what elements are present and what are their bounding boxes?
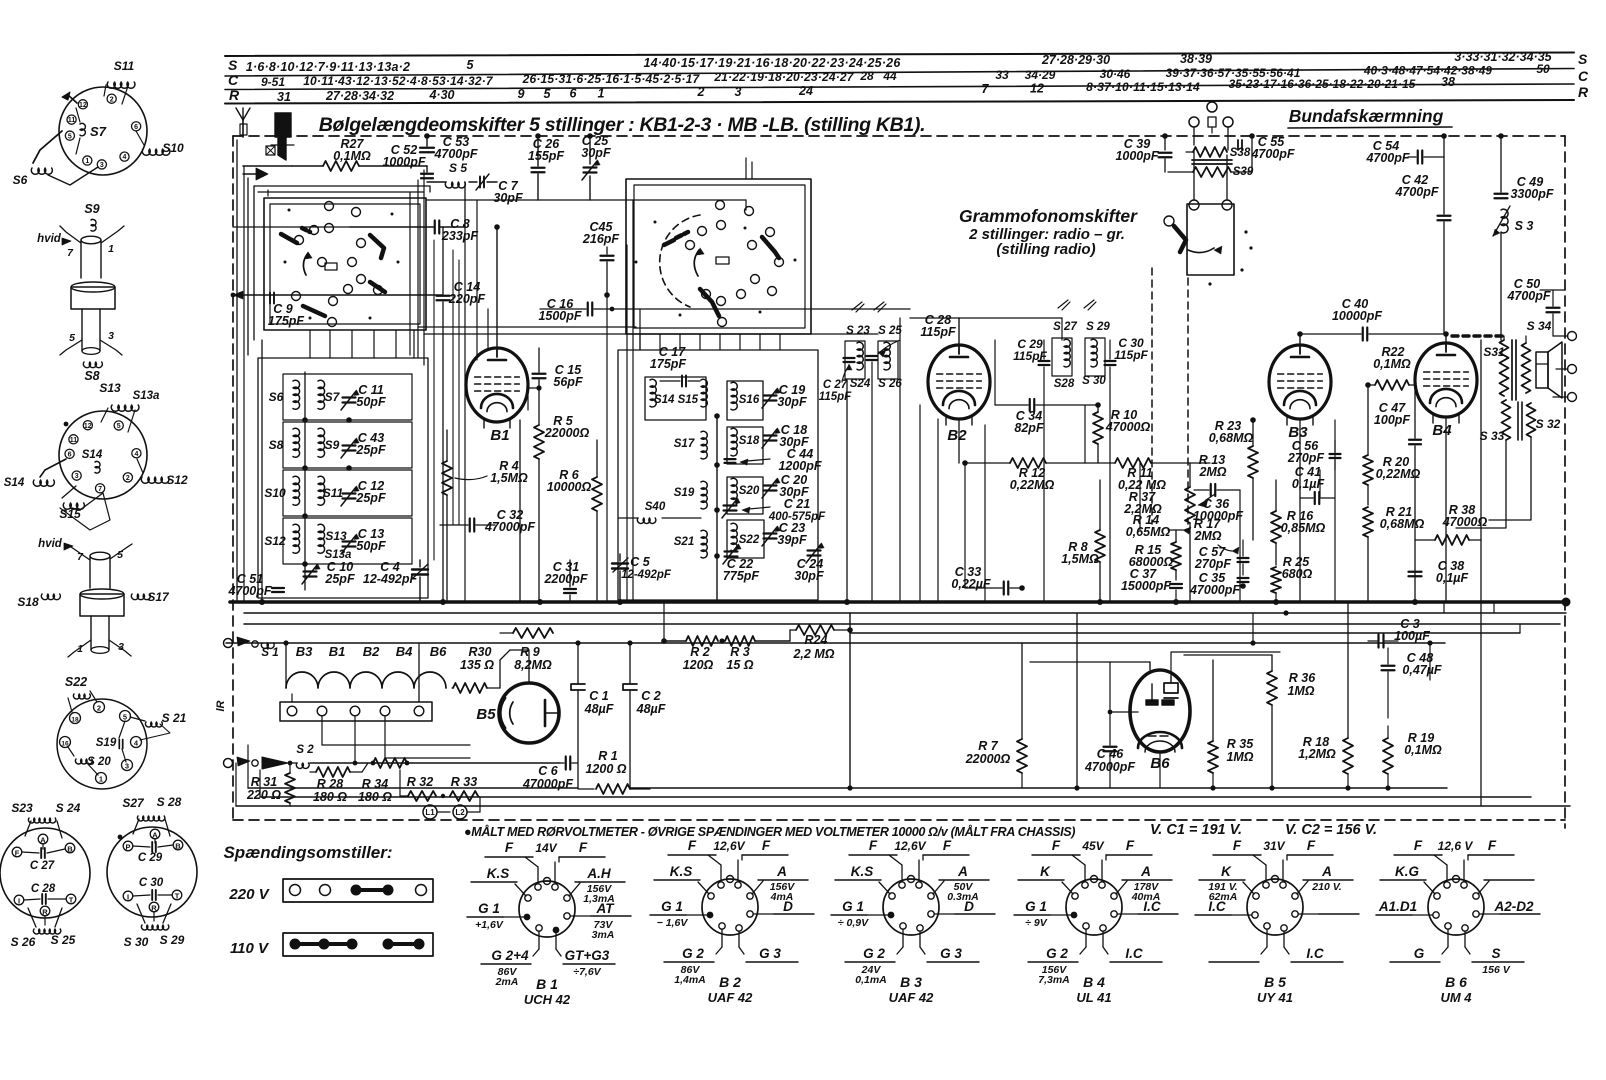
resistor R15: [1129, 530, 1181, 580]
svg-text:I.C: I.C: [1143, 899, 1161, 914]
capacitor C56: [1287, 439, 1341, 470]
resistor R32: [400, 770, 436, 801]
trimmer C11: [341, 383, 386, 410]
coil pair S27 S29: [1052, 321, 1110, 390]
svg-text:S10: S10: [162, 141, 184, 155]
svg-text:175pF: 175pF: [268, 314, 304, 328]
svg-text:G 2: G 2: [863, 946, 885, 961]
svg-text:S38: S38: [1230, 147, 1251, 159]
svg-text:S 24: S 24: [56, 801, 81, 815]
coil box S18: [727, 427, 763, 464]
svg-text:F: F: [1488, 838, 1497, 853]
svg-text:S 32: S 32: [1536, 417, 1561, 431]
svg-text:B3: B3: [296, 644, 313, 659]
svg-text:30pF: 30pF: [794, 569, 824, 583]
svg-text:F: F: [505, 840, 514, 855]
svg-text:C 29: C 29: [138, 852, 163, 864]
svg-text:100pF: 100pF: [1374, 413, 1410, 427]
svg-text:1: 1: [85, 158, 89, 165]
svg-text:S28: S28: [1054, 378, 1075, 390]
wire v antenna drop2: [243, 166, 245, 602]
svg-text:56pF: 56pF: [553, 375, 583, 389]
coil S6 leads on wafer S7: [13, 131, 98, 187]
band switch box 2 outline: [626, 179, 811, 334]
svg-text:2: 2: [110, 96, 114, 103]
svg-text:S 33: S 33: [1480, 429, 1505, 443]
svg-text:S16: S16: [739, 394, 760, 406]
capacitor C15: [527, 348, 583, 425]
svg-text:10·11·43·12·13·52·4·8·53·14·32: 10·11·43·12·13·52·4·8·53·14·32·7: [303, 74, 494, 88]
svg-text:11: 11: [70, 437, 78, 444]
svg-text:1: 1: [77, 643, 83, 655]
wafer S22 coil and labels: [65, 675, 187, 775]
coil block row boxes: [283, 374, 412, 564]
coil S3: [1493, 206, 1533, 340]
svg-text:220 Ω: 220 Ω: [246, 788, 281, 802]
svg-text:AT: AT: [596, 901, 616, 916]
trimmer C7: [476, 174, 523, 205]
svg-text:S: S: [1578, 51, 1588, 67]
transformer S38/S39 core: [1192, 160, 1232, 164]
tube B6 magic eye: [1130, 670, 1190, 772]
svg-text:2MΩ: 2MΩ: [1193, 529, 1221, 543]
svg-text:B 5: B 5: [1264, 974, 1286, 990]
coil S5: [427, 161, 477, 188]
wire right-mid verticals: [1044, 318, 1446, 602]
svg-text:T: T: [69, 896, 74, 905]
svg-text:0,1µF: 0,1µF: [1436, 571, 1469, 585]
svg-text:31: 31: [277, 90, 291, 104]
svg-text:÷ 0,9V: ÷ 0,9V: [838, 917, 869, 929]
wire mid verticals: [607, 295, 995, 602]
coil S8b: [269, 428, 300, 457]
svg-text:C 6: C 6: [538, 764, 559, 778]
svg-text:F: F: [869, 838, 878, 853]
coil box S16: [727, 381, 763, 420]
svg-text:R 3: R 3: [730, 645, 750, 659]
band switch 1 contacts: [292, 202, 383, 301]
svg-text:hvid: hvid: [37, 233, 62, 245]
svg-text:15000pF: 15000pF: [1121, 579, 1171, 593]
resistor R10: [1093, 402, 1150, 463]
svg-text:S6: S6: [13, 173, 28, 187]
svg-text:F: F: [1052, 838, 1061, 853]
svg-text:F: F: [1414, 838, 1423, 853]
svg-text:8,2MΩ: 8,2MΩ: [514, 658, 552, 672]
dashed screen lines middle: [1152, 268, 1188, 524]
tube B1: [466, 348, 528, 444]
svg-text:0,85MΩ: 0,85MΩ: [1281, 521, 1326, 535]
wire bottom h1: [248, 787, 578, 789]
svg-text:S19: S19: [96, 737, 117, 749]
resistor R19b: [1383, 726, 1442, 788]
svg-text:6: 6: [134, 124, 138, 131]
trimmer C20: [762, 473, 809, 499]
resistor R33: [441, 775, 478, 801]
main ground bus: [230, 598, 1571, 607]
svg-text:34·29: 34·29: [1025, 68, 1056, 82]
svg-text:R: R: [229, 87, 240, 103]
svg-text:5: 5: [68, 133, 72, 140]
svg-text:÷ 9V: ÷ 9V: [1025, 917, 1048, 929]
coil S14 left leads: [4, 459, 66, 489]
main title Boelgelaengdeomskifter: [319, 114, 926, 136]
resistor R30: [452, 645, 510, 693]
svg-text:2200pF: 2200pF: [543, 572, 587, 586]
capacitor C47: [1374, 385, 1421, 602]
mains connector block: [266, 113, 294, 160]
svg-text:F: F: [943, 838, 952, 853]
resistor R34: [358, 758, 409, 804]
svg-text:R 28: R 28: [317, 777, 343, 791]
rotary switch S23/S24 capacitor view: [0, 801, 90, 949]
svg-text:S 26: S 26: [878, 378, 902, 390]
svg-text:S8: S8: [269, 438, 284, 452]
svg-text:6: 6: [68, 451, 72, 458]
resistor R18: [1298, 602, 1353, 788]
svg-text:D: D: [964, 899, 974, 914]
svg-text:270pF: 270pF: [1194, 557, 1231, 571]
svg-text:156 V: 156 V: [1482, 964, 1510, 976]
band switch 2 rotor arc: [660, 215, 700, 307]
resistor R25: [1271, 555, 1313, 602]
coil S11 on wafer S7: [104, 59, 135, 104]
svg-text:4700pF: 4700pF: [1394, 185, 1438, 199]
svg-text:S17: S17: [674, 438, 695, 450]
svg-text:S 21: S 21: [162, 711, 187, 725]
svg-text:G 2: G 2: [1046, 946, 1068, 961]
band switch 1 rotation arrow: [303, 252, 312, 275]
svg-text:B4: B4: [396, 644, 413, 659]
svg-text:1,2MΩ: 1,2MΩ: [1298, 747, 1336, 761]
svg-text:47000pF: 47000pF: [1189, 583, 1240, 597]
svg-text:UL 41: UL 41: [1076, 990, 1111, 1005]
wire mid left run: [231, 227, 443, 299]
svg-text:K.S: K.S: [851, 864, 874, 879]
svg-text:C 1: C 1: [589, 689, 609, 703]
trimmer C17: [650, 345, 700, 387]
coil box S22: [727, 520, 764, 558]
capacitor C44: [725, 447, 822, 473]
svg-text:K.S: K.S: [670, 864, 693, 879]
coil S10 on wafer S7: [136, 131, 184, 155]
svg-text:F: F: [688, 838, 697, 853]
svg-text:11: 11: [68, 117, 76, 124]
bold dashed link B4: [1452, 334, 1503, 337]
svg-text:I.C: I.C: [1208, 899, 1226, 914]
band switch box 1 outline: [264, 198, 426, 330]
wire lower h3: [850, 632, 1520, 634]
wire B2 top: [910, 318, 1062, 344]
svg-text:0,22MΩ: 0,22MΩ: [1376, 467, 1421, 481]
svg-text:0,68MΩ: 0,68MΩ: [1209, 431, 1254, 445]
trimmer arrows S27: [1058, 300, 1096, 310]
svg-text:S6: S6: [269, 390, 284, 404]
variable capacitor C5: [612, 554, 672, 602]
svg-text:22000Ω: 22000Ω: [965, 752, 1011, 766]
svg-text:B 3: B 3: [900, 974, 922, 990]
wire bottom left verticals: [236, 745, 260, 806]
wire B5 grid: [510, 650, 529, 683]
svg-text:S27: S27: [122, 796, 145, 810]
mains plug S1: [224, 637, 279, 659]
svg-text:0,1MΩ: 0,1MΩ: [333, 149, 371, 163]
trimmer C23: [762, 521, 807, 547]
svg-text:210 V.: 210 V.: [1311, 881, 1341, 893]
svg-text:B2: B2: [947, 427, 967, 444]
svg-text:38: 38: [1441, 75, 1455, 89]
svg-text:G 3: G 3: [759, 946, 781, 961]
svg-text:K.G: K.G: [1395, 864, 1420, 879]
wire cross horizontals: [418, 327, 878, 334]
svg-text:0,22MΩ: 0,22MΩ: [1010, 478, 1055, 492]
wire feed 2: [243, 166, 292, 355]
svg-text:Bundafskærmning: Bundafskærmning: [1289, 106, 1444, 126]
band switch 2 dots: [635, 221, 797, 317]
capacitor C27b: [819, 358, 855, 403]
arrow into switch: [243, 168, 268, 180]
svg-text:R 32: R 32: [407, 775, 433, 789]
trimmer C25: [581, 133, 611, 200]
svg-text:F: F: [762, 838, 771, 853]
svg-text:Grammofonomskifter: Grammofonomskifter: [959, 206, 1138, 226]
svg-text:1,5MΩ: 1,5MΩ: [490, 471, 528, 485]
svg-text:A.H: A.H: [586, 866, 611, 881]
svg-text:S 27: S 27: [1053, 321, 1077, 333]
svg-text:R 1: R 1: [598, 749, 618, 763]
shaft switch S9 label: [84, 202, 99, 231]
svg-text:0,65MΩ: 0,65MΩ: [1126, 525, 1171, 539]
svg-text:S12: S12: [264, 534, 286, 548]
svg-text:48µF: 48µF: [584, 702, 614, 716]
capacitor C2 electrolytic: [623, 643, 666, 788]
band switch 1 index mark: [325, 263, 337, 270]
filament chain humps B3 B1 B2 B4 B6: [283, 640, 447, 688]
band switch 1 wiper a: [281, 228, 310, 243]
wafer S13 pointer dot: [64, 422, 69, 427]
svg-text:3: 3: [108, 330, 114, 342]
title Bundafskaermning: [1288, 106, 1452, 128]
svg-text:S 26: S 26: [11, 935, 36, 949]
wire switchbox2 drops: [640, 334, 780, 350]
svg-text:44: 44: [882, 69, 897, 83]
svg-text:G 1: G 1: [478, 901, 500, 916]
svg-text:3: 3: [100, 162, 104, 169]
wire extra verticals mid: [627, 158, 752, 602]
svg-text:33: 33: [995, 68, 1009, 82]
svg-text:B1: B1: [490, 427, 509, 444]
svg-text:3: 3: [125, 762, 129, 771]
tube B3: [1269, 345, 1331, 441]
resistor R28: [310, 763, 368, 804]
coil S13 S13a on wafer: [99, 381, 160, 432]
svg-text:I.C: I.C: [1306, 946, 1324, 961]
filament tap bar: [280, 643, 432, 721]
svg-text:R 31: R 31: [251, 775, 277, 789]
coil S9b: [318, 428, 340, 457]
svg-text:G 1: G 1: [842, 899, 864, 914]
wire lower h4: [226, 640, 1445, 645]
svg-text:2: 2: [97, 704, 101, 713]
trimmer C9: [268, 293, 304, 329]
svg-text:S 30: S 30: [124, 935, 149, 949]
svg-text:5: 5: [544, 87, 552, 101]
svg-text:4: 4: [123, 154, 127, 161]
trimmer C13: [341, 527, 386, 554]
capacitor C16: [538, 297, 910, 323]
svg-text:S: S: [1491, 946, 1500, 961]
resistor R8: [1061, 480, 1105, 602]
svg-text:G 2+4: G 2+4: [491, 948, 529, 963]
svg-text:S12: S12: [166, 473, 188, 487]
band switch 1 wiper b: [370, 235, 384, 258]
svg-text:G: G: [1414, 946, 1425, 961]
svg-text:2,2 MΩ: 2,2 MΩ: [792, 647, 834, 661]
trimmer C43: [341, 431, 386, 458]
svg-text:22000Ω: 22000Ω: [544, 426, 590, 440]
svg-text:R: R: [42, 908, 48, 917]
coil box S14 S15: [645, 377, 707, 420]
svg-text:F: F: [15, 849, 20, 858]
svg-text:S18: S18: [17, 595, 39, 609]
rotary wafer switch S22: [57, 699, 147, 789]
capacitor C42: [1394, 157, 1450, 334]
svg-text:hvid: hvid: [38, 538, 63, 550]
svg-text:1,4mA: 1,4mA: [674, 974, 706, 986]
wire B6 leads: [1030, 652, 1280, 745]
capacitor C26: [528, 133, 564, 200]
svg-text:S7: S7: [325, 390, 341, 404]
wire switchbox1 drops: [310, 330, 414, 358]
S row numbers: [246, 50, 1553, 74]
svg-text:S 28: S 28: [157, 795, 182, 809]
capacitor C50: [1506, 277, 1565, 336]
coil block 2 outline: [618, 350, 818, 600]
wire drop mid: [664, 602, 850, 788]
svg-text:1: 1: [99, 775, 103, 784]
filament tap wires: [322, 716, 470, 765]
capacitor C3: [1368, 617, 1430, 648]
svg-text:(stilling radio): (stilling radio): [996, 241, 1095, 258]
svg-text:1: 1: [598, 87, 605, 101]
svg-text:B 6: B 6: [1445, 974, 1467, 990]
coil S10b: [264, 476, 299, 505]
resistor R24: [790, 625, 853, 661]
svg-text:T: T: [175, 892, 180, 901]
svg-text:47000pF: 47000pF: [522, 777, 573, 791]
svg-text:4700pF: 4700pF: [227, 584, 271, 598]
wire B6 box: [1150, 655, 1272, 788]
svg-text:S 3: S 3: [1515, 219, 1534, 233]
svg-text:0,1mA: 0,1mA: [855, 974, 887, 986]
svg-text:25pF: 25pF: [355, 443, 386, 457]
svg-text:27·28·29·30: 27·28·29·30: [1041, 53, 1110, 67]
svg-text:K: K: [1040, 864, 1051, 879]
svg-text:G 3: G 3: [940, 946, 962, 961]
coil S21: [674, 530, 708, 558]
resistor R17 label: [1193, 517, 1239, 554]
capacitor C31: [543, 560, 587, 602]
svg-text:S 1: S 1: [261, 647, 278, 659]
svg-text:R 7: R 7: [978, 739, 999, 753]
svg-text:S7: S7: [90, 124, 107, 139]
svg-text:B4: B4: [1432, 422, 1452, 439]
wire bottom h2: [630, 785, 1447, 790]
svg-text:G 1: G 1: [661, 899, 683, 914]
svg-text:220pF: 220pF: [448, 292, 485, 306]
svg-text:S13a: S13a: [133, 390, 160, 402]
svg-text:0.3mA: 0.3mA: [947, 891, 979, 903]
svg-text:S14: S14: [82, 449, 103, 461]
svg-text:R30: R30: [469, 645, 492, 659]
transformer S31 S34 with speaker: [1483, 319, 1551, 400]
resistor R9: [500, 628, 553, 672]
svg-text:F: F: [1307, 838, 1316, 853]
wire nested top-left: [254, 186, 430, 192]
svg-text:28: 28: [859, 69, 874, 83]
svg-text:1500pF: 1500pF: [538, 309, 581, 323]
svg-text:S22: S22: [65, 675, 87, 689]
svg-text:R 35: R 35: [1227, 737, 1254, 751]
capacitor C52: [382, 143, 433, 178]
R row numbers: [277, 75, 1455, 104]
coil S15 bottom leads: [59, 486, 110, 530]
svg-text:R 36: R 36: [1289, 671, 1316, 685]
svg-text:Spændingsomstiller:: Spændingsomstiller:: [223, 843, 392, 862]
svg-text:lR: lR: [215, 700, 227, 711]
svg-text:7: 7: [98, 486, 102, 493]
trimmer arrows S23: [852, 302, 886, 312]
capacitor C36: [1193, 484, 1243, 523]
svg-text:I: I: [18, 897, 20, 906]
svg-text:A: A: [40, 836, 46, 845]
wires transformer drop: [1456, 340, 1531, 806]
svg-text:S 25: S 25: [878, 325, 902, 337]
rotated R marker: [215, 700, 227, 711]
svg-text:S21: S21: [674, 536, 694, 548]
svg-text:39pF: 39pF: [777, 533, 807, 547]
title Grammofonomskifter: [959, 206, 1138, 258]
capacitor C30: [1105, 336, 1149, 365]
resistor R16: [1271, 480, 1325, 565]
resistor R4: [442, 430, 528, 602]
svg-text:30pF: 30pF: [777, 395, 807, 409]
shaft 2 pin numbers: [77, 549, 124, 655]
svg-text:B5: B5: [476, 706, 496, 723]
capacitor C8: [350, 217, 478, 243]
svg-text:9-51: 9-51: [261, 75, 285, 89]
capacitor C53: [420, 133, 478, 161]
coil pair S23 S25: [845, 325, 902, 390]
tube socket B1 UCH42: [467, 840, 631, 1007]
band switch 1 dots: [284, 209, 400, 320]
tube socket B4 UL41: [1014, 838, 1178, 1005]
svg-text:15 Ω: 15 Ω: [726, 658, 753, 672]
svg-text:2: 2: [126, 475, 130, 482]
svg-text:47000pF: 47000pF: [484, 520, 535, 534]
svg-text:3: 3: [75, 473, 79, 480]
capacitor C34: [995, 399, 1098, 435]
wire bottom h4: [236, 805, 1570, 807]
svg-text:B 2: B 2: [719, 974, 741, 990]
capacitor C55: [1249, 133, 1295, 172]
row letters S C R left: [228, 57, 240, 103]
svg-text:1: 1: [108, 243, 114, 255]
rotary wafer switch S13/S14: [59, 411, 147, 499]
resistor S39: [1168, 166, 1254, 178]
capacitor C45: [582, 220, 619, 298]
svg-text:14V: 14V: [535, 841, 557, 855]
